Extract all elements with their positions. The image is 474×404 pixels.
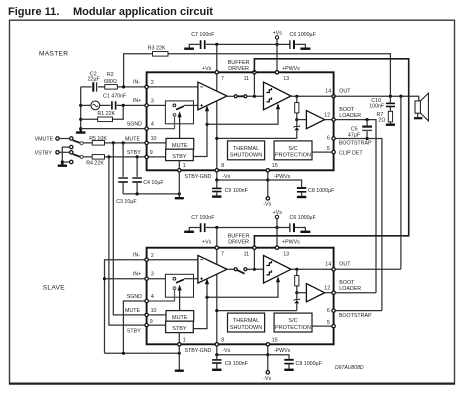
svg-text:SHUTDOWN: SHUTDOWN — [230, 325, 262, 331]
svg-text:IN-: IN- — [133, 253, 140, 259]
IC block TDA7293 master outline — [147, 72, 334, 170]
wire pin9 to STBY box — [148, 156, 165, 158]
svg-text:14: 14 — [325, 88, 331, 94]
node dot sgnd join — [122, 352, 125, 355]
wire +Vs slave to pin 13 — [276, 219, 278, 248]
svg-text:8: 8 — [221, 337, 224, 343]
pin 6 circle — [332, 137, 335, 140]
wire slave IN- tied down — [105, 260, 147, 354]
svg-text:C8 1000µF: C8 1000µF — [296, 361, 323, 367]
capacitor C9 slave — [216, 355, 218, 359]
wire lever to opamp plus — [184, 104, 198, 106]
diode zener internal — [296, 120, 298, 139]
node dot pin11 branch — [253, 95, 256, 98]
node dot on rail (pin7 riser) — [215, 43, 218, 46]
svg-text:4: 4 — [151, 121, 154, 127]
wire stby to R4 to pin 9 — [83, 156, 147, 158]
wire slave input ground line — [105, 352, 180, 354]
ground bar for C7 — [184, 48, 194, 50]
ground hook left of C7 — [189, 44, 199, 47]
svg-text:C9 100nF: C9 100nF — [225, 361, 249, 367]
svg-text:CLIP DET: CLIP DET — [339, 150, 364, 156]
svg-text:MASTER: MASTER — [39, 51, 68, 58]
node dot source top — [79, 104, 82, 107]
wire S/C to pin 5 — [312, 151, 334, 153]
pin 15 circle slave — [266, 343, 269, 346]
capacitor C9 — [216, 180, 218, 188]
pin 14 circle slave — [332, 268, 335, 271]
wire pin3 to switch box — [147, 104, 173, 106]
ground bar speaker — [414, 117, 422, 119]
capacitor C6 slave plates — [289, 223, 291, 232]
resistor R4 — [92, 155, 104, 160]
svg-text:9: 9 — [150, 319, 153, 325]
svg-text:LOADER: LOADER — [339, 113, 361, 119]
wire slave pin 8 to -Vs node — [217, 346, 268, 355]
wire slave pin 12 to boot line — [335, 292, 376, 294]
pin 12 circle slave — [332, 291, 335, 294]
contact circle stby switch — [70, 151, 73, 154]
pin 2 circle — [145, 85, 148, 88]
wire stby long line to slave pin 9 — [109, 157, 147, 325]
svg-text:R3 22K: R3 22K — [148, 45, 166, 51]
svg-text:6: 6 — [327, 308, 330, 314]
svg-text:-Vs: -Vs — [222, 348, 230, 354]
wire pin11 riser internal — [253, 72, 255, 96]
node dot C5 top — [366, 118, 369, 121]
terminal VMUTE circle — [56, 137, 59, 140]
capacitor C4 — [136, 157, 138, 177]
stby control line to amps — [194, 108, 279, 156]
capacitor C3 — [122, 143, 124, 177]
svg-text:+Vs: +Vs — [202, 66, 212, 72]
wire to boot loader triangle slave — [297, 292, 307, 294]
link closed buffer jumper — [234, 95, 237, 98]
wire pin6 bootstrap net — [335, 139, 382, 311]
wire link to power amp — [247, 95, 264, 97]
svg-text:1: 1 — [183, 163, 186, 169]
svg-text:1: 1 — [183, 337, 186, 343]
contact circle to SGND slave — [173, 287, 176, 290]
node dot stby line branch — [107, 155, 110, 158]
ground bar switches — [58, 162, 67, 166]
arrow into opamp slave — [206, 283, 208, 297]
switch lever slave input — [176, 279, 184, 283]
svg-text:+Vs: +Vs — [273, 210, 283, 216]
node dot switch ground — [61, 160, 64, 163]
svg-text:D97AU808D: D97AU808D — [335, 365, 364, 371]
svg-text:LOADER: LOADER — [339, 286, 361, 292]
svg-text:STBY-GND: STBY-GND — [185, 348, 212, 354]
wire VMUTE to contact — [59, 138, 69, 140]
svg-text:8: 8 — [221, 163, 224, 169]
pin 7 circle slave — [215, 246, 218, 249]
wire pin1 from STBY box — [178, 161, 180, 171]
wire pin3 to switch box slave — [147, 278, 173, 280]
minus mark slave — [200, 259, 203, 261]
pin 5 circle — [332, 150, 335, 153]
wire link to power amp slave — [247, 268, 264, 270]
wire C3 C4 ground line — [123, 193, 179, 195]
resistor internal bootstrap — [296, 96, 298, 119]
svg-text:MUTE: MUTE — [172, 143, 188, 149]
node dot slave rail pin13 — [275, 226, 278, 229]
svg-text:+Vs: +Vs — [273, 31, 283, 37]
wire slave IN+ — [105, 278, 147, 280]
wire pin10 to MUTE box slave — [148, 314, 166, 316]
pin 9 circle slave — [145, 323, 148, 326]
plus mark — [200, 104, 203, 107]
wire pin2 to opamp — [147, 86, 198, 88]
stby control line slave — [194, 281, 279, 328]
node dot stby control — [205, 123, 208, 126]
node dot OUT slave tie — [399, 95, 402, 98]
wire pin2 to opamp slave — [147, 259, 198, 261]
svg-text:STBY-GND: STBY-GND — [185, 174, 212, 180]
svg-text:22µF: 22µF — [88, 77, 101, 83]
resistor internal bootstrap slave — [296, 269, 298, 292]
capacitor C6 plates — [289, 40, 291, 49]
svg-text:VMUTE: VMUTE — [35, 137, 54, 143]
wire R1 branch — [81, 105, 124, 119]
op-amp input triangle slave — [198, 255, 227, 283]
svg-text:12: 12 — [324, 286, 330, 292]
plus mark slave — [200, 277, 203, 280]
svg-text:BOOTSTRAP: BOOTSTRAP — [339, 313, 372, 319]
pin 15 circle — [266, 169, 269, 172]
svg-text:STBY: STBY — [172, 326, 187, 332]
svg-text:MUTE: MUTE — [125, 308, 140, 314]
pin 8 circle — [215, 169, 218, 172]
svg-text:THERMAL: THERMAL — [233, 318, 259, 324]
pin 7 circle — [215, 71, 218, 74]
pin 10 circle slave — [145, 313, 148, 316]
svg-text:IN-: IN- — [133, 80, 140, 86]
wire OUT tie to slave — [400, 96, 402, 269]
node dot -Vs branch — [266, 178, 269, 181]
wire pin11 riser internal slave — [253, 248, 255, 270]
svg-text:Modular application circuit: Modular application circuit — [73, 6, 213, 18]
svg-text:12: 12 — [324, 112, 330, 118]
wire boot loader to pin 12 slave — [325, 292, 334, 294]
svg-text:C6 1000µF: C6 1000µF — [290, 215, 317, 221]
wire pin 8 to -Vs node — [217, 172, 268, 180]
minus mark — [200, 86, 203, 88]
svg-text:THERMAL: THERMAL — [233, 146, 259, 152]
speaker — [415, 101, 420, 113]
node dot boot loader input slave — [295, 291, 298, 294]
wire left input rail — [80, 87, 82, 129]
pin 4 circle slave — [145, 299, 148, 302]
wire source to C1 to pin 3 — [81, 104, 147, 106]
node dot stby control slave — [205, 296, 208, 299]
pin 12 circle — [332, 118, 335, 121]
wire slave pin 1 to ground — [178, 346, 180, 370]
switch box mute input — [165, 101, 193, 124]
node dot internal rail slave — [215, 309, 218, 312]
wire IN- from rail corner to pin 2 — [81, 86, 147, 88]
signal source circle — [91, 101, 100, 110]
pin 10 circle — [145, 141, 148, 144]
node dot C4 on ground line — [136, 192, 139, 195]
svg-text:4: 4 — [151, 294, 154, 300]
arrow mute control slave — [179, 289, 181, 310]
node dot slave IN tie — [103, 277, 106, 280]
node dot internal rail — [215, 137, 218, 140]
wire riser slave rail to pin 7 — [216, 228, 218, 248]
svg-text:C7 100nF: C7 100nF — [191, 32, 215, 38]
box MUTE — [166, 138, 194, 149]
terminal +Vs circle — [275, 36, 278, 39]
svg-text:-Vs: -Vs — [263, 376, 271, 382]
pin 3 circle — [145, 104, 148, 107]
svg-text:C9 100nF: C9 100nF — [225, 188, 249, 194]
capacitor C8 slave — [284, 359, 293, 361]
arrow into power amp slave — [276, 276, 280, 282]
svg-text:DRIVER: DRIVER — [228, 66, 249, 72]
svg-text:R5 10K: R5 10K — [89, 136, 107, 142]
contact circle stby alt — [70, 160, 73, 163]
wire SGND to pin 4 — [81, 128, 147, 130]
svg-text:MUTE: MUTE — [172, 315, 188, 321]
svg-text:15: 15 — [272, 337, 278, 343]
pin 1 circle — [178, 169, 181, 172]
op-amp input triangle master — [198, 82, 227, 110]
pin 1 circle slave — [178, 343, 181, 346]
wire VSTBY to contact — [59, 151, 69, 153]
svg-text:15: 15 — [272, 163, 278, 169]
pin 13 circle — [275, 71, 278, 74]
svg-text:C1 470nF: C1 470nF — [103, 94, 127, 100]
switch box slave — [165, 274, 193, 297]
svg-text:5: 5 — [327, 320, 330, 326]
svg-text:OUT: OUT — [339, 261, 351, 267]
power amp triangle master — [264, 82, 292, 110]
capacitor C7 plates — [200, 40, 202, 49]
svg-text:7: 7 — [221, 76, 224, 82]
contact circle IN+ — [173, 104, 176, 107]
svg-text:Figure 11.: Figure 11. — [8, 6, 59, 18]
svg-text:680Ω: 680Ω — [104, 79, 117, 85]
capacitor C10 — [389, 96, 391, 102]
resistor R3 — [153, 52, 169, 57]
wire pin12 boot loader net — [335, 120, 376, 293]
node dot pin11 branch slave — [253, 268, 256, 271]
node dot on rail (+Vs / pin13 riser) — [275, 43, 278, 46]
contact circle stby wire — [80, 156, 83, 159]
svg-text:13: 13 — [283, 251, 289, 257]
switch lever stby — [73, 154, 81, 157]
wire SGND contact stem slave — [147, 290, 175, 301]
wire lever to opamp plus slave — [184, 278, 198, 280]
wire power amp out to pin 14 — [291, 95, 334, 97]
svg-text:S/C: S/C — [288, 146, 297, 152]
wire feedback line IN- to OUT — [124, 54, 391, 96]
wire boot loader to pin 12 — [325, 119, 334, 121]
svg-text:MUTE: MUTE — [125, 136, 140, 142]
internal rail branch — [217, 137, 297, 139]
wire pin10 to MUTE box — [148, 142, 166, 144]
svg-text:OUT: OUT — [339, 88, 351, 94]
svg-text:2: 2 — [151, 253, 154, 259]
pin 3 circle slave — [145, 277, 148, 280]
wire pin1 from STBY box slave — [178, 333, 180, 345]
capacitor C2 plates — [92, 82, 94, 91]
node dot output internal slave — [295, 268, 298, 271]
arrow mute control — [179, 116, 181, 138]
ground hook left of slave C7 — [189, 228, 199, 231]
wire pin 15 to -Vs terminal — [267, 172, 269, 197]
wire pin9 to STBY box slave — [148, 324, 165, 326]
wire S/C to pin 5 slave — [312, 325, 334, 327]
pin 8 circle slave — [215, 343, 218, 346]
svg-text:C8 1000µF: C8 1000µF — [308, 188, 335, 194]
svg-text:C4 10µF: C4 10µF — [143, 180, 164, 186]
wire opamp out to link — [227, 95, 234, 97]
pin 5 circle slave — [332, 324, 335, 327]
resistor R2 — [105, 85, 118, 90]
node dot IN- / R3 junction — [122, 85, 125, 88]
svg-text:IN+: IN+ — [133, 98, 141, 104]
svg-text:3: 3 — [151, 98, 154, 104]
svg-text:R4 22K: R4 22K — [86, 160, 104, 166]
pin 2 circle slave — [145, 258, 148, 261]
svg-text:100nF: 100nF — [369, 103, 385, 109]
diode zener internal slave — [296, 293, 298, 311]
wire mute long line to slave pin 10 — [113, 143, 146, 315]
svg-text:R2: R2 — [107, 72, 114, 78]
switch lever mute — [73, 140, 81, 143]
contact circle IN+ slave — [173, 277, 176, 280]
svg-text:5: 5 — [327, 146, 330, 152]
ground bar for C6 — [300, 48, 310, 50]
ground bar stby-gnd — [175, 197, 184, 199]
svg-text:PROTECTION: PROTECTION — [275, 325, 311, 331]
box STBY — [166, 149, 194, 160]
pin 13 circle slave — [275, 246, 278, 249]
link open buffer jumper slave — [234, 268, 237, 271]
svg-text:14: 14 — [325, 261, 331, 267]
svg-text:SGND: SGND — [127, 121, 142, 127]
svg-text:C6 1000µF: C6 1000µF — [290, 32, 317, 38]
pin 14 circle — [332, 95, 335, 98]
svg-text:-Vs: -Vs — [222, 174, 230, 180]
svg-text:R1 22K: R1 22K — [97, 111, 115, 117]
ground bar C9 — [212, 195, 221, 197]
arrow into opamp — [206, 110, 208, 124]
node dot C3 branch — [122, 141, 125, 144]
svg-text:STBY: STBY — [127, 150, 141, 156]
ground bar slave C6 — [300, 231, 310, 233]
wire slave SGND — [123, 301, 146, 353]
wire slave OUT to tie — [335, 268, 401, 270]
box THERMAL SHUTDOWN slave — [228, 313, 265, 332]
svg-text:+PWVs: +PWVs — [282, 240, 300, 246]
wire OUT to speaker — [334, 96, 419, 101]
terminal VSTBY circle — [56, 151, 59, 154]
node dot C5 bottom — [366, 137, 369, 140]
ground bar slave C7 — [184, 231, 194, 233]
boot loader triangle slave — [306, 284, 324, 302]
pin 11 circle slave — [253, 246, 256, 249]
contact circle mute switch — [70, 137, 73, 140]
wire slave pin 6 to bootstrap line — [335, 310, 382, 312]
wire power amp out to pin 14 slave — [291, 268, 334, 270]
svg-text:13: 13 — [283, 76, 289, 82]
ground hook right of C6 — [295, 44, 306, 47]
svg-text:SGND: SGND — [127, 294, 142, 300]
capacitor C8 — [297, 187, 306, 189]
contact circle mute alt — [70, 145, 73, 148]
node dot C9 — [215, 178, 218, 181]
svg-text:+Vs: +Vs — [202, 240, 212, 246]
svg-text:IN+: IN+ — [133, 272, 141, 278]
svg-text:S/C: S/C — [288, 318, 297, 324]
pin 6 circle slave — [332, 309, 335, 312]
svg-text:BOOT: BOOT — [339, 280, 355, 286]
svg-text:C7 100nF: C7 100nF — [191, 215, 215, 221]
internal rail slave — [217, 310, 297, 312]
power amp triangle slave — [264, 255, 292, 283]
capacitor C7 slave plates — [200, 223, 202, 232]
node dot SGND left — [79, 127, 82, 130]
contact circle to SGND — [173, 114, 176, 117]
svg-text:C3 10µF: C3 10µF — [116, 199, 137, 205]
node dot slave rail pin7 — [215, 226, 218, 229]
transistor glyph upper slave — [266, 261, 271, 266]
wire top supply rail — [206, 43, 290, 45]
pin 4 circle — [145, 127, 148, 130]
transistor glyph lower — [266, 97, 271, 102]
IC block TDA7293 slave outline — [147, 248, 334, 345]
ground bar slave stby-gnd — [175, 370, 184, 372]
wire slave C8 branch — [268, 355, 289, 359]
svg-text:BOOT: BOOT — [339, 107, 355, 113]
terminal -Vs slave circle — [266, 371, 269, 374]
svg-text:9: 9 — [150, 150, 153, 156]
svg-text:7: 7 — [221, 251, 224, 257]
terminal -Vs circle — [266, 197, 269, 200]
wire slave supply rail — [206, 227, 290, 229]
svg-text:10: 10 — [151, 136, 157, 142]
pin 11 circle — [253, 71, 256, 74]
resistor R7 — [388, 111, 392, 122]
ground bar slave C8 — [284, 369, 293, 371]
transistor glyph lower slave — [266, 270, 271, 275]
svg-text:6: 6 — [327, 136, 330, 142]
node dot slave C9 — [215, 353, 218, 356]
node dot slave -Vs branch — [266, 353, 269, 356]
wire SGND contact stem — [147, 116, 175, 128]
wire riser rail to pin 7 — [216, 44, 218, 72]
node dot OUT feedback — [389, 95, 392, 98]
capacitor C5 47uF — [366, 120, 368, 126]
svg-text:STBY: STBY — [127, 328, 141, 334]
wire pin 1 to ground — [178, 172, 180, 197]
svg-text:VSTBY: VSTBY — [35, 151, 53, 157]
svg-text:-PWVs: -PWVs — [274, 348, 291, 354]
wire to boot loader triangle — [297, 119, 307, 121]
svg-text:SHUTDOWN: SHUTDOWN — [230, 153, 262, 159]
box S/C PROTECTION — [274, 141, 312, 160]
svg-text:DRIVER: DRIVER — [228, 240, 249, 246]
svg-text:47µF: 47µF — [348, 132, 361, 138]
box S/C PROTECTION slave — [274, 313, 312, 332]
capacitor C1 plates — [111, 101, 113, 109]
wire buffer driver bus master pin11 to slave pin11 — [254, 59, 408, 247]
svg-text:-Vs: -Vs — [263, 202, 271, 208]
svg-text:+PWVs: +PWVs — [282, 66, 300, 72]
